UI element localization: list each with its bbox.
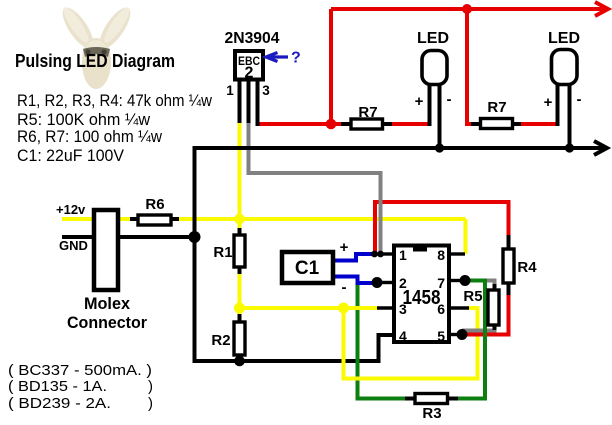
- node: IC pin2 junction: [372, 277, 383, 288]
- capacitor C1 box: [282, 252, 333, 283]
- svg-text:+: +: [544, 94, 553, 111]
- svg-text:-: -: [447, 91, 452, 108]
- wire: green R3 right up to IC pin7: [456, 281, 485, 399]
- svg-text:2: 2: [245, 65, 254, 82]
- svg-text:-: -: [342, 279, 347, 296]
- svg-text:R1: R1: [213, 244, 232, 261]
- transistor Q1 2N3904 body: [235, 51, 263, 80]
- svg-text:6: 6: [437, 301, 445, 317]
- wire: red vertical left drop: [329, 9, 333, 124]
- svg-text:Pulsing LED Diagram: Pulsing LED Diagram: [15, 51, 175, 71]
- svg-text:7: 7: [437, 275, 445, 291]
- svg-text:+: +: [415, 93, 424, 110]
- svg-text:): ): [148, 378, 153, 395]
- op-amp U1 1458 body: [394, 246, 449, 343]
- svg-text:R7: R7: [358, 104, 377, 121]
- wire: yellow +12v rail: [62, 217, 466, 221]
- wire: black GND from molex to bus: [62, 235, 196, 239]
- node: IC pin7 junction: [460, 275, 471, 286]
- node: R2 bottom junction: [234, 356, 245, 367]
- node: IC pin5 junction: [457, 329, 468, 340]
- wire: red collector row LED1: [256, 122, 344, 126]
- svg-text:LED: LED: [548, 30, 580, 47]
- wire: gray R5 bottom to IC pin5: [462, 323, 495, 331]
- black arrow head: [594, 141, 607, 155]
- wire: black vertical bus: [193, 146, 197, 363]
- svg-text:5: 5: [437, 328, 445, 344]
- resistor R4: [507, 235, 511, 295]
- node: yellow junction pin3 row: [338, 303, 349, 314]
- svg-text:( BD135 - 1A.: ( BD135 - 1A.: [8, 378, 107, 395]
- svg-text:Connector: Connector: [67, 313, 147, 332]
- svg-text:( BD239 - 2A.: ( BD239 - 2A.: [8, 395, 111, 412]
- wire: yellow drop to IC pin8: [464, 219, 468, 254]
- wire: green from IC pin2 down to R3 left: [358, 283, 407, 399]
- node: red junction top rail: [462, 4, 472, 14]
- wire: red R4 bottom to IC pin5: [463, 292, 509, 335]
- node: GND junction: [189, 231, 201, 243]
- LED D1 body: [428, 80, 432, 126]
- svg-text:3: 3: [262, 83, 270, 98]
- resistor R5: [493, 284, 497, 330]
- resistor R1: [238, 228, 242, 274]
- svg-text:1: 1: [226, 83, 234, 98]
- svg-text:4: 4: [399, 328, 407, 344]
- svg-text:R2: R2: [211, 332, 230, 349]
- resistor R7 (left): [341, 122, 392, 126]
- resistor R3: [405, 397, 458, 401]
- svg-text:Molex: Molex: [84, 294, 131, 313]
- node: LED2 cathode on ground rail: [565, 143, 574, 152]
- svg-text:1458: 1458: [403, 287, 441, 309]
- svg-text:LED: LED: [417, 30, 449, 47]
- resistor R2: [238, 314, 242, 361]
- wire: red row LED2: [520, 122, 560, 126]
- wire: gray transistor base to IC pin1: [249, 122, 381, 254]
- svg-text:R5: R5: [463, 288, 482, 305]
- svg-text:R7: R7: [487, 99, 506, 116]
- wire: yellow vertical transistor pin1 to R1/R2: [238, 122, 242, 230]
- wire: gray IC pin7 to R5 top: [466, 281, 495, 293]
- svg-text:( BC337 - 500mA. ): ( BC337 - 500mA. ): [8, 362, 152, 379]
- wire: yellow horizontal to IC pin3: [240, 306, 379, 310]
- svg-text:+: +: [340, 239, 349, 256]
- wire: yellow loop to IC pin6: [344, 308, 478, 379]
- svg-text:): ): [148, 395, 153, 412]
- op-amp U1 1458 pin stubs: [377, 254, 469, 335]
- wire: red IC pin1 to R4 top: [375, 202, 509, 254]
- moth logo: [57, 3, 136, 89]
- svg-text:C1: 22uF 100V: C1: 22uF 100V: [17, 146, 125, 165]
- svg-text:2: 2: [399, 275, 407, 291]
- node: red junction at transistor collector: [326, 119, 337, 130]
- wire: black ground rail: [195, 146, 604, 150]
- svg-text:3: 3: [399, 301, 407, 317]
- svg-text:2N3904: 2N3904: [225, 30, 280, 47]
- red arrow head: [595, 2, 608, 16]
- LED D2 body: [556, 80, 560, 126]
- svg-text:R3: R3: [422, 405, 441, 422]
- wire: red vertical right drop: [467, 11, 474, 124]
- node: IC pin1 small dots: [371, 251, 378, 258]
- node: LED1 cathode on ground rail: [435, 143, 444, 152]
- svg-text:R4: R4: [517, 259, 537, 276]
- wire: black bottom run from vertical bus to IC pin4: [196, 335, 394, 361]
- svg-text:R1, R2, R3, R4: 47k ohm ¼w: R1, R2, R3, R4: 47k ohm ¼w: [17, 91, 213, 110]
- molex connector body: [94, 210, 118, 290]
- svg-text:R6, R7: 100 ohm ¼w: R6, R7: 100 ohm ¼w: [17, 127, 163, 146]
- resistor R7 (right): [471, 122, 521, 126]
- svg-text:-: -: [577, 91, 582, 108]
- resistor R6: [130, 217, 179, 221]
- node: yellow junction at rail: [234, 214, 245, 225]
- svg-text:?: ?: [291, 50, 301, 67]
- svg-text:R6: R6: [145, 196, 164, 213]
- wire: blue C1 plus to IC pin1: [333, 254, 376, 261]
- node: yellow junction R1 bottom: [234, 303, 245, 314]
- wire: red top rail: [331, 7, 604, 11]
- svg-text:C1: C1: [295, 258, 320, 279]
- svg-text:1: 1: [399, 247, 407, 263]
- svg-text:+12v: +12v: [56, 202, 86, 217]
- wire: blue C1 minus to IC pin2: [333, 277, 377, 284]
- svg-text:8: 8: [437, 247, 445, 263]
- svg-text:GND: GND: [59, 238, 88, 253]
- blue arrow: [266, 53, 288, 62]
- transistor Q1 2N3904 pins: [238, 79, 242, 123]
